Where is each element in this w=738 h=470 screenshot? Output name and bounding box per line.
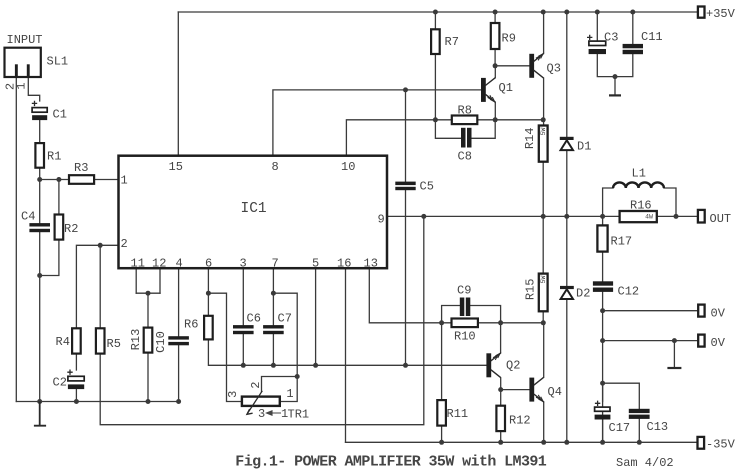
wire 0V tap lower — [603, 340, 699, 342]
svg-text:INPUT: INPUT — [7, 33, 43, 47]
node C5 bus — [403, 363, 408, 368]
resistor R14 5W — [539, 126, 548, 162]
node R2 C4 — [37, 273, 42, 278]
svg-text:C8: C8 — [458, 150, 472, 164]
wire Q3 emitter down to R14 — [543, 78, 545, 125]
wire pin2 node down to R5 — [99, 245, 101, 328]
capacitor C10 — [168, 336, 189, 345]
wire C8 parallel loop — [435, 120, 495, 139]
op-amp IC1 LM391 box — [119, 156, 388, 269]
transistor Q4 — [529, 377, 543, 402]
wire node B down to R2 — [58, 180, 60, 215]
wire D1 anode to output net — [566, 150, 568, 216]
wire IC pin11 — [135, 268, 137, 293]
wire node A to R3 — [40, 179, 69, 181]
capacitor C13 — [629, 409, 650, 419]
svg-text:R12: R12 — [509, 414, 531, 428]
node gnd C2 — [74, 399, 79, 404]
svg-text:0V: 0V — [711, 336, 726, 350]
terminal 0V upper — [698, 305, 704, 317]
wire pin11 pin12 join to R13 — [136, 293, 160, 327]
capacitor C12 — [593, 281, 613, 292]
svg-text:C9: C9 — [457, 284, 471, 298]
resistor R13 — [144, 328, 153, 353]
svg-text:R2: R2 — [64, 222, 78, 236]
wire L1 right lead — [664, 188, 676, 216]
resistor R11 — [437, 400, 446, 426]
svg-text:R15: R15 — [524, 278, 538, 300]
node L1 right — [674, 214, 679, 219]
wire R2 bottom to C4 column — [40, 240, 59, 276]
svg-text:L1: L1 — [632, 167, 646, 181]
resistor R15 5W — [539, 274, 548, 312]
node pin6 — [206, 291, 211, 296]
node Q1 emitter — [493, 117, 498, 122]
svg-text:R10: R10 — [454, 330, 476, 344]
node rail D2 — [564, 440, 569, 445]
node R11 C9 — [439, 320, 444, 325]
terminal -35V — [698, 437, 705, 449]
wire R14 bottom to output net — [542, 162, 544, 217]
svg-text:R9: R9 — [502, 32, 516, 46]
svg-text:3: 3 — [240, 257, 247, 271]
wire R1 to node A — [39, 168, 41, 180]
wire D1 cathode to top rail — [566, 12, 568, 137]
svg-text:Q3: Q3 — [547, 62, 561, 76]
transistor Q2 — [486, 353, 500, 378]
wire C17 top stub — [602, 383, 604, 401]
wire C11 top stub — [632, 12, 634, 44]
resistor R16 — [620, 211, 657, 222]
wire IC pin5 to bias bus — [315, 268, 317, 365]
node feedback pin9 — [421, 214, 426, 219]
svg-text:R14: R14 — [523, 127, 537, 149]
capacitor C7 — [263, 325, 284, 334]
capacitor C1 electrolytic — [32, 101, 47, 120]
resistor R6 — [204, 316, 213, 340]
svg-text:R4: R4 — [56, 335, 70, 349]
transistor Q1 — [481, 78, 495, 103]
svg-text:R16: R16 — [630, 199, 652, 213]
svg-text:D1: D1 — [577, 140, 591, 154]
wire R11 bottom to rail — [441, 426, 443, 443]
diode D2 — [560, 286, 574, 299]
svg-text:R17: R17 — [611, 235, 633, 249]
connector SL1 — [5, 48, 41, 77]
node 0V lower — [600, 338, 605, 343]
wire Q2 node to Q4 base — [501, 389, 530, 391]
wire C7 bottom to bias bus — [272, 334, 274, 366]
svg-text:1: 1 — [14, 82, 28, 89]
node top rail C11 — [630, 10, 635, 15]
wire pin7 branch to TR1 wiper node — [273, 293, 297, 376]
svg-text:Sam 4/02: Sam 4/02 — [616, 456, 674, 470]
svg-text:R6: R6 — [184, 318, 198, 332]
node R14 R15 — [541, 214, 546, 219]
svg-text:10: 10 — [341, 160, 355, 174]
capacitor C4 — [29, 223, 50, 232]
wire D2 anode to rail — [566, 299, 568, 442]
svg-text:C4: C4 — [21, 210, 35, 224]
wire Q1 collector stub — [494, 66, 496, 78]
resistor R17 — [597, 225, 607, 251]
svg-text:C11: C11 — [641, 30, 663, 44]
terminal OUT — [698, 210, 705, 223]
wire R6 bottom to bias bus — [208, 339, 486, 365]
capacitor C6 — [233, 325, 254, 334]
resistor R1 — [35, 143, 44, 168]
wire output net to D2 cathode — [566, 216, 568, 286]
wire R4 to C2 — [75, 354, 77, 370]
wire IC pin6 to R6 — [207, 268, 209, 316]
wire 0V ground stub — [673, 341, 675, 367]
node pin7 — [271, 291, 276, 296]
svg-text:R7: R7 — [445, 35, 459, 49]
node D1 D2 — [564, 214, 569, 219]
svg-text:7: 7 — [272, 257, 279, 271]
wire Q1 emitter stub — [494, 102, 496, 120]
svg-text:3: 3 — [258, 407, 265, 421]
svg-text:OUT: OUT — [710, 212, 732, 226]
wire node to R12 — [500, 390, 502, 406]
wire R15 top to output net — [542, 216, 544, 273]
wire IC pin8 to Q1 base — [273, 90, 481, 156]
wire C10 bottom to ground bus — [178, 345, 180, 402]
node Q3 emitter R14 — [541, 117, 546, 122]
wire R9 top to rail — [494, 12, 496, 23]
svg-text:C3: C3 — [604, 31, 618, 45]
resistor R5 — [96, 328, 105, 353]
wire pin6 branch to TR1 pin3 — [208, 293, 242, 401]
ground top right — [609, 94, 621, 96]
node top rail Q3 — [541, 10, 546, 15]
label TR1 note arrow — [267, 411, 282, 415]
wire 0V tap upper — [603, 310, 699, 312]
wire TR1 wiper up — [262, 377, 298, 392]
wire C1 to R1 — [39, 120, 41, 143]
inductor L1 — [613, 182, 664, 188]
wire R12 bottom to rail — [500, 431, 502, 442]
svg-text:R8: R8 — [458, 104, 472, 118]
wire C5 top stub — [405, 90, 407, 182]
capacitor C17 electrolytic — [595, 401, 611, 420]
wire Q1 node to Q3 base — [495, 65, 529, 67]
wire C4 bottom to ground bus — [39, 232, 41, 401]
node pin11 pin12 — [146, 291, 151, 296]
wire ground bus left — [16, 401, 178, 403]
wire top +35V rail — [178, 11, 698, 13]
capacitor C9 — [460, 298, 471, 317]
node R15 Q4 — [541, 320, 546, 325]
wire IC pin4 to C10 — [178, 268, 180, 336]
node top rail R9 — [493, 10, 498, 15]
svg-text:R5: R5 — [107, 337, 121, 351]
wire R7 top to rail — [434, 12, 436, 29]
svg-text:5W: 5W — [540, 276, 547, 284]
node C7 bus — [271, 363, 276, 368]
wire node to R11 — [441, 323, 443, 400]
node rail C13 — [637, 440, 642, 445]
node output L1 — [600, 214, 605, 219]
svg-text:C7: C7 — [278, 312, 292, 326]
wire Q3 collector to top rail — [543, 12, 545, 54]
wire C13 bottom to rail — [638, 419, 640, 442]
svg-text:3: 3 — [226, 391, 240, 398]
resistor R10 — [452, 319, 478, 328]
node C3 C11 ground — [613, 74, 618, 79]
wire IC pin3 to C6 — [242, 268, 244, 325]
wire L1 left lead — [603, 188, 614, 216]
node rail R12 — [498, 440, 503, 445]
svg-text:Q1: Q1 — [499, 81, 513, 95]
svg-text:13: 13 — [364, 257, 378, 271]
node Q2 emitter Q4 base — [498, 387, 503, 392]
wire C3 C11 ground join — [597, 54, 633, 94]
svg-text:4W: 4W — [645, 214, 653, 221]
resistor R7 — [431, 29, 440, 54]
svg-text:R13: R13 — [129, 329, 143, 351]
wire IC pin7 to C7 — [272, 268, 274, 325]
node pin2 R5 — [98, 243, 103, 248]
wire Q2 collector stub — [500, 323, 502, 353]
resistor R9 — [491, 23, 500, 49]
svg-text:2: 2 — [121, 237, 128, 251]
wire C9 parallel loop — [442, 306, 501, 323]
svg-text:5W: 5W — [540, 128, 547, 136]
ground left — [34, 402, 46, 426]
svg-text:9: 9 — [378, 213, 385, 227]
node 0V upper — [600, 308, 605, 313]
wire C17 bottom to rail — [602, 420, 604, 443]
node C9 Q2 — [498, 320, 503, 325]
wire IC pin16 to -35V rail — [345, 268, 347, 442]
node rail Q4 — [541, 440, 546, 445]
node gnd C10 — [176, 399, 181, 404]
capacitor C3 electrolytic — [587, 35, 606, 54]
node R7 R8 — [433, 117, 438, 122]
svg-text:5: 5 — [312, 257, 319, 271]
svg-text:C6: C6 — [247, 312, 261, 326]
svg-text:R3: R3 — [74, 161, 88, 175]
transistor Q3 — [529, 54, 543, 79]
ground 0V — [667, 367, 681, 369]
wire SL1 pin1 to C1 — [28, 77, 39, 102]
svg-text:2: 2 — [249, 382, 263, 389]
node TR1 wiper — [295, 374, 300, 379]
wire R8 right to Q3 node — [477, 119, 543, 121]
resistor R3 — [69, 175, 94, 184]
wire C12 down 0V column — [602, 292, 604, 442]
wire R5 bottom feedback to pin9 node — [100, 216, 424, 424]
terminal +35V — [698, 7, 705, 18]
wire R7 bottom to pin10 net — [434, 54, 436, 120]
svg-text:C10: C10 — [154, 331, 168, 353]
node A input — [37, 177, 42, 182]
wire R15 bottom — [542, 311, 544, 323]
capacitor C2 electrolytic — [67, 370, 84, 390]
wire C3 top stub — [596, 12, 598, 40]
svg-text:1: 1 — [286, 387, 293, 401]
node top rail R7 — [433, 10, 438, 15]
svg-text:C1: C1 — [53, 108, 67, 122]
wire SL1 pin2 left rail — [15, 77, 17, 402]
node B input — [56, 177, 61, 182]
svg-text:-35V: -35V — [706, 438, 736, 452]
wire IC pin10 to R8 — [346, 120, 451, 156]
wire pin15 to top rail — [177, 12, 179, 156]
resistor R12 — [496, 406, 505, 431]
wire C6 bottom to bias bus — [242, 334, 244, 366]
capacitor C8 — [461, 128, 472, 148]
node gnd C4 — [37, 399, 42, 404]
resistor R8 — [452, 116, 478, 125]
wire R13 bottom to ground bus — [147, 353, 149, 402]
node gnd R13 — [146, 399, 151, 404]
wire output node to R17 — [602, 216, 604, 225]
svg-text:11: 11 — [131, 257, 145, 271]
svg-text:8: 8 — [272, 160, 279, 174]
capacitor C11 — [623, 44, 643, 54]
wire IC pin9 output net — [387, 215, 698, 217]
svg-text:Fig.1- POWER AMPLIFIER 35W wit: Fig.1- POWER AMPLIFIER 35W with LM391 — [235, 453, 546, 470]
node rail C17 — [600, 440, 605, 445]
terminal 0V lower — [698, 335, 704, 347]
svg-text:C5: C5 — [420, 180, 434, 194]
wire IC pin13 to Q2 net — [369, 268, 543, 323]
node C17 C13 — [600, 381, 605, 386]
svg-text:IC1: IC1 — [241, 201, 267, 217]
svg-text:C17: C17 — [609, 421, 631, 435]
svg-text:6: 6 — [205, 257, 212, 271]
svg-text:C2: C2 — [53, 376, 67, 390]
node top rail C3 — [595, 10, 600, 15]
node top rail D1 — [564, 10, 569, 15]
svg-text:16: 16 — [337, 257, 351, 271]
svg-text:R1: R1 — [47, 150, 61, 164]
wire IC pin12 — [159, 268, 161, 293]
wire Q2 emitter to node — [500, 378, 502, 390]
node Q1 collector R9 — [493, 63, 498, 68]
svg-text:15: 15 — [169, 160, 183, 174]
svg-text:C13: C13 — [647, 420, 669, 434]
wire Q4 collector up to R15 node — [543, 323, 545, 378]
svg-text:1: 1 — [121, 174, 128, 188]
node pin8 C5 — [403, 87, 408, 92]
wire bottom -35V rail — [346, 441, 698, 443]
node rail R11 — [439, 440, 444, 445]
resistor R2 — [55, 215, 64, 240]
wire Q4 emitter to rail — [543, 402, 545, 442]
wire IC pin2 to R4 R5 — [76, 245, 118, 328]
svg-text:D2: D2 — [576, 287, 590, 301]
diode D1 — [560, 137, 574, 150]
trimmer TR1 — [242, 391, 280, 415]
wire C2 to ground bus — [75, 389, 77, 401]
wire R17 to C12 — [602, 252, 604, 282]
wire R3 to IC pin1 — [94, 179, 118, 181]
wire C5 bottom to bias bus — [405, 190, 407, 365]
wire node A down to C4 — [39, 180, 41, 224]
node pin5 bus — [313, 363, 318, 368]
wire R9 bottom to Q1 node — [494, 49, 496, 66]
svg-text:12: 12 — [152, 257, 166, 271]
wire C17 C13 branch — [603, 383, 640, 409]
resistor R4 — [72, 328, 81, 353]
svg-text:Q4: Q4 — [548, 385, 562, 399]
svg-text:+35V: +35V — [706, 7, 736, 21]
node C6 bus — [241, 363, 246, 368]
svg-text:SL1: SL1 — [47, 55, 69, 69]
svg-text:Q2: Q2 — [506, 359, 520, 373]
svg-text:C12: C12 — [618, 285, 640, 299]
svg-text:R11: R11 — [447, 407, 469, 421]
wire TR1 pin1 — [280, 377, 297, 402]
node 0V ground — [672, 338, 677, 343]
capacitor C5 — [395, 182, 415, 191]
svg-text:0V: 0V — [711, 307, 726, 321]
svg-text:TR1: TR1 — [288, 408, 310, 422]
svg-text:4: 4 — [176, 257, 183, 271]
